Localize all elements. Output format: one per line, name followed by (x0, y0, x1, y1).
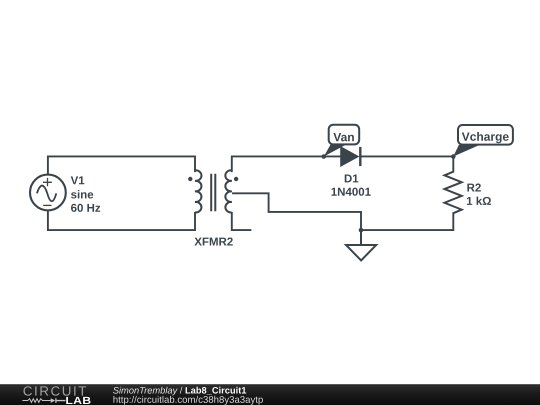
wire: secondary top to diode anode (232, 156, 341, 171)
node dot: diode anode / Van (322, 154, 327, 159)
wire: ground rail junction to R2 bottom (361, 213, 453, 230)
label 1 kOhm (467, 197, 491, 205)
flag Vcharge text (462, 132, 509, 143)
footer logo CIRCUIT (23, 386, 86, 395)
flag Van text (333, 133, 354, 141)
transformer dot primary (188, 177, 192, 181)
footer credit line 2 (113, 396, 262, 405)
label 1N4001 (331, 188, 370, 196)
label R2 (467, 183, 480, 191)
flag Vcharge box (458, 125, 513, 145)
voltage source V1 circle (30, 175, 66, 211)
V1 sine wave (37, 186, 56, 202)
V1 plus sign (43, 178, 52, 186)
ground symbol (346, 230, 376, 260)
wire: secondary bottom stub (232, 213, 251, 230)
footer logo LAB (66, 397, 90, 404)
footer logo resistor zigzag and wire (22, 399, 50, 403)
transformer core (211, 174, 215, 212)
transformer XFMR2 primary winding (195, 170, 202, 212)
label V1 60 Hz (71, 204, 100, 212)
resistor R2 zigzag (445, 172, 462, 214)
diode D1 triangle (341, 147, 359, 166)
transformer dot secondary (234, 177, 238, 181)
flag Van pointer (324, 145, 346, 157)
wire: diode cathode to Vcharge node (360, 155, 453, 157)
diode D1 cathode bar (359, 147, 361, 166)
V1 minus sign (43, 204, 51, 206)
wire: Vcharge node to R2 top (452, 156, 454, 171)
flag Van box (329, 125, 360, 145)
flag Vcharge pointer (453, 145, 480, 157)
transformer secondary winding (225, 170, 232, 212)
label D1 (345, 174, 359, 182)
node dot: ground junction (359, 228, 364, 233)
footer logo diode (51, 398, 56, 403)
wire: V1 top to primary top (48, 156, 195, 174)
footer credit line 1 (113, 387, 178, 396)
wire: V1 bottom to primary bottom (48, 211, 195, 231)
label V1 name (71, 176, 85, 184)
node dot: Vcharge (451, 154, 456, 159)
footer bar (0, 384, 540, 405)
label XFMR2 (194, 237, 232, 245)
wire: secondary center tap to ground junction (233, 193, 361, 230)
label V1 sine (71, 190, 93, 198)
